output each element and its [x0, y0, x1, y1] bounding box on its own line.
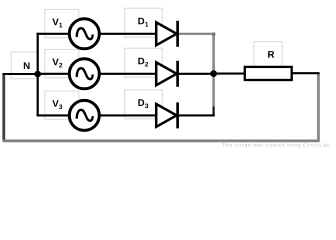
diode D2 [156, 61, 177, 87]
label R [268, 51, 274, 58]
label frame V3 [45, 91, 79, 119]
label D2 [138, 58, 148, 67]
resistor R [245, 67, 292, 80]
wire row2 right [177, 73, 214, 75]
label V1 [52, 19, 62, 28]
label frame V1 [45, 9, 79, 37]
wire row1 left [37, 33, 70, 35]
junction node left [34, 71, 41, 78]
wire resistor out [292, 72, 320, 74]
wire row2 left [37, 73, 70, 75]
label frame D1 [125, 8, 163, 37]
label frame R [254, 42, 282, 70]
label D3 [138, 99, 148, 108]
wire right bus lower black segment [213, 107, 215, 117]
junction corner cap top-right [212, 33, 215, 36]
wire row3 mid [97, 114, 157, 116]
label frame N [11, 52, 37, 79]
wire row3 right [177, 114, 215, 116]
label V3 [52, 100, 62, 109]
wire row3 left [37, 114, 70, 116]
svg-text:This circuit was created using: This circuit was created using CircuitLa… [222, 142, 332, 147]
ac source V1 [69, 19, 99, 49]
wire left-outer vertical [2, 73, 5, 141]
wire right-outer vertical [317, 73, 320, 142]
label frame D2 [125, 48, 163, 77]
ac source V3 [69, 100, 99, 130]
diode D1 [156, 21, 177, 47]
label frame V2 [45, 49, 79, 77]
wire left bus vertical [37, 33, 39, 116]
label V2 [52, 59, 62, 68]
wire bottom return [3, 139, 320, 142]
label D1 [138, 18, 148, 27]
wire row2 mid [97, 73, 157, 75]
wire row1 mid [97, 33, 157, 35]
label frame D3 [125, 90, 163, 119]
junction node right [210, 70, 217, 77]
wire row1 right [178, 33, 215, 35]
wire resistor feed [214, 73, 245, 75]
diode D3 [156, 102, 177, 128]
ac source V2 [69, 59, 99, 89]
wire right bus vertical [212, 33, 215, 107]
wire node N horizontal [3, 73, 38, 75]
label N [24, 62, 30, 69]
